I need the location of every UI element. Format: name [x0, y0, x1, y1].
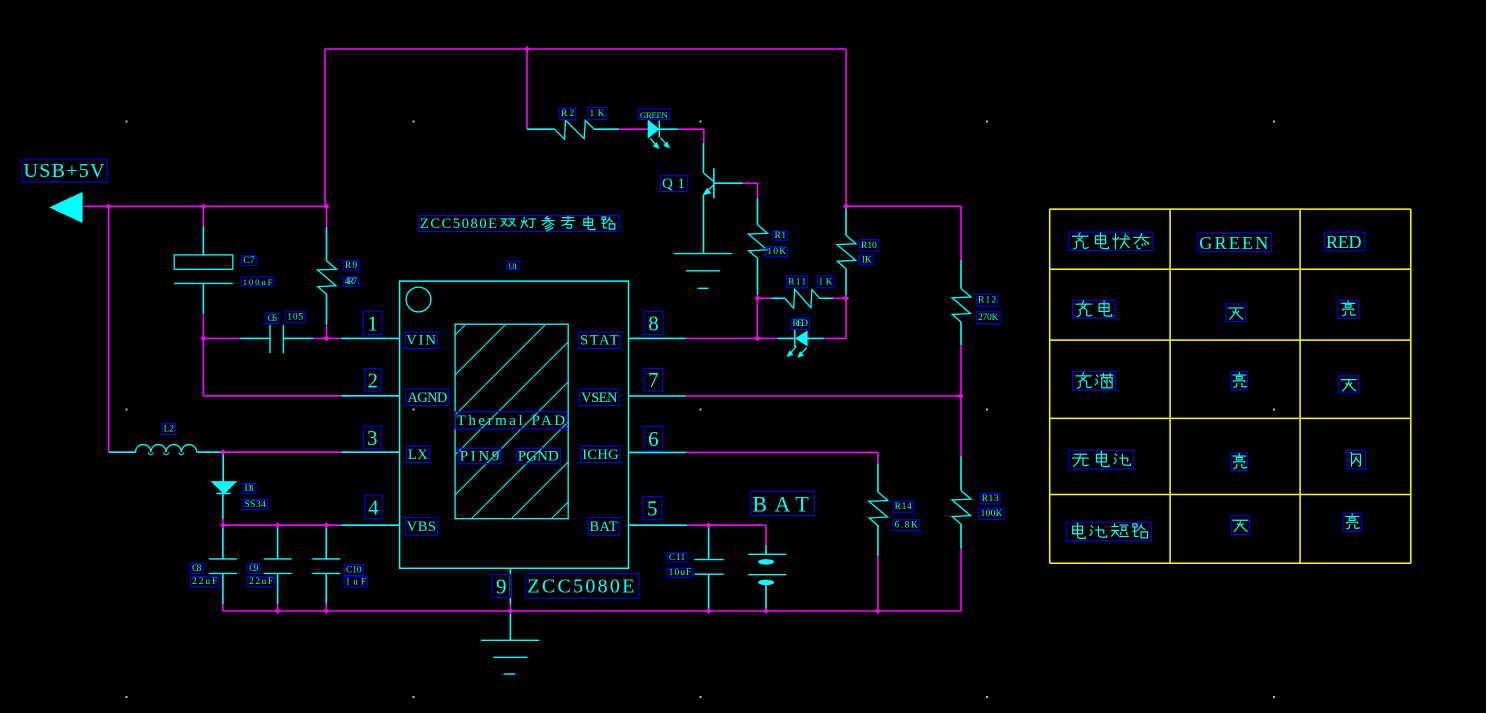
svg-text:C6: C6	[268, 314, 278, 324]
svg-text:PIN9: PIN9	[460, 448, 500, 464]
svg-text:SS34: SS34	[245, 500, 267, 510]
svg-text:4: 4	[368, 495, 379, 519]
svg-text:C10: C10	[346, 566, 362, 576]
svg-text:D1: D1	[244, 484, 254, 494]
svg-text:R11: R11	[788, 277, 806, 287]
svg-text:GREEN: GREEN	[640, 110, 669, 120]
svg-text:5: 5	[647, 497, 658, 521]
svg-text:R9: R9	[345, 261, 357, 271]
svg-text:GREEN: GREEN	[1199, 233, 1270, 253]
svg-text:1K: 1K	[861, 256, 872, 266]
svg-text:PGND: PGND	[518, 448, 559, 464]
svg-text:ZCC5080E: ZCC5080E	[420, 216, 497, 232]
svg-text:VSEN: VSEN	[581, 390, 618, 406]
svg-text:STAT: STAT	[580, 333, 619, 349]
svg-text:LX: LX	[408, 447, 428, 463]
svg-text:RED: RED	[792, 319, 808, 329]
svg-text:AGND: AGND	[407, 390, 447, 406]
svg-text:7: 7	[648, 368, 659, 392]
svg-text:R1: R1	[775, 231, 787, 241]
svg-text:6.8K: 6.8K	[895, 521, 918, 531]
svg-text:22uF: 22uF	[249, 577, 273, 587]
svg-text:BAT: BAT	[589, 519, 617, 535]
svg-text:R10: R10	[861, 241, 877, 251]
svg-text:C7: C7	[243, 256, 255, 266]
svg-text:270K: 270K	[978, 313, 999, 323]
svg-text:6: 6	[648, 427, 659, 451]
svg-text:L2: L2	[164, 424, 175, 434]
svg-text:4R7: 4R7	[345, 277, 358, 287]
svg-text:ICHG: ICHG	[582, 447, 619, 463]
svg-text:10uF: 10uF	[669, 568, 692, 578]
svg-text:3: 3	[367, 426, 378, 450]
svg-text:C11: C11	[669, 553, 686, 563]
svg-text:R14: R14	[895, 502, 912, 512]
svg-text:10K: 10K	[767, 247, 786, 257]
svg-text:C9: C9	[249, 564, 259, 574]
svg-text:U1: U1	[509, 261, 518, 271]
svg-text:R13: R13	[982, 494, 999, 504]
svg-text:105: 105	[287, 312, 303, 322]
svg-text:8: 8	[648, 312, 659, 336]
svg-text:C8: C8	[192, 564, 202, 574]
svg-text:USB+5V: USB+5V	[24, 160, 106, 182]
svg-text:RED: RED	[1326, 232, 1363, 252]
svg-text:VBS: VBS	[407, 519, 436, 535]
svg-text:R12: R12	[978, 296, 996, 306]
svg-text:22uF: 22uF	[192, 577, 217, 587]
svg-text:2: 2	[368, 368, 379, 392]
svg-text:1K: 1K	[819, 277, 833, 287]
svg-text:1uF: 1uF	[346, 578, 367, 588]
svg-text:1K: 1K	[589, 109, 604, 119]
svg-text:Thermal PAD: Thermal PAD	[457, 413, 566, 429]
svg-text:BAT: BAT	[752, 491, 813, 516]
svg-text:ZCC5080E: ZCC5080E	[527, 576, 637, 598]
svg-text:VIN: VIN	[406, 333, 436, 349]
svg-text:100K: 100K	[981, 509, 1003, 519]
svg-text:1: 1	[367, 311, 378, 335]
svg-text:9: 9	[496, 575, 507, 599]
